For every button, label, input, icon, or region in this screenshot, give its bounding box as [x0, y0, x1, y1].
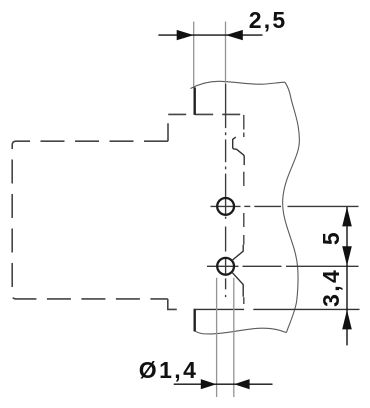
horizontal center line lower hole	[207, 265, 359, 267]
contact hook detail	[233, 137, 245, 165]
dim dia 1,4 right arrow	[234, 379, 250, 389]
housing step top	[168, 114, 244, 141]
dimension vertical line (5 / 3,4)	[346, 207, 348, 346]
dimension 2,5 left arrow	[177, 30, 194, 40]
dim 5 upper arrow (up)	[342, 207, 352, 227]
gray extension line dia 1,4 right	[233, 278, 235, 397]
PCB bottom face line	[194, 308, 244, 310]
housing outline (dashed)	[12, 141, 168, 299]
svg-text:5: 5	[318, 230, 344, 245]
dim 5 lower arrow (down)	[342, 246, 352, 265]
hole H1 upper circle	[217, 198, 234, 215]
PCB right break edge	[283, 82, 300, 332]
hole H2 lower circle	[217, 258, 234, 275]
housing step bottom	[168, 299, 194, 310]
dimension 2,5 right arrow	[226, 30, 243, 40]
dimension 2,5 line	[158, 34, 262, 36]
horizontal center line upper hole	[211, 205, 359, 207]
vertical center line (holes axis)	[225, 84, 227, 297]
extension line for 3,4 (bottom, to dimension)	[253, 308, 359, 310]
funnel upper diagonal (lower hole)	[232, 245, 243, 261]
svg-text:2,5: 2,5	[249, 7, 288, 33]
PCB top break line	[191, 81, 286, 88]
PCB bottom break line	[195, 328, 287, 334]
gray extension line 2,5 left	[193, 22, 195, 87]
PCB left edge top segment	[193, 87, 195, 115]
housing shroud right edge (dashed vertical, segments)	[243, 115, 245, 304]
svg-text:3,4: 3,4	[318, 268, 344, 307]
dim 3,4 bottom arrow (up, below line)	[342, 310, 352, 330]
funnel lower diagonal (lower hole)	[232, 272, 243, 297]
PCB left edge bottom segment	[193, 309, 195, 332]
dim dia 1,4 left arrow	[201, 379, 217, 389]
gray extension line dia 1,4 left	[216, 278, 218, 397]
svg-text:Ø1,4: Ø1,4	[139, 357, 198, 383]
dimension dia 1,4 line	[174, 383, 273, 385]
gray extension line 2,5 right	[225, 22, 227, 85]
